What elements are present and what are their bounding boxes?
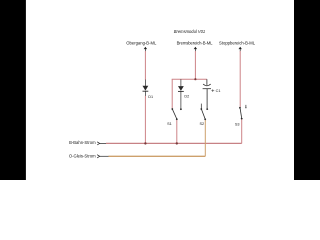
svg-text:D1: D1: [148, 95, 153, 99]
svg-text:S2: S2: [199, 122, 204, 126]
svg-text:S1: S1: [167, 122, 172, 126]
svg-text:S3: S3: [235, 122, 240, 126]
svg-text:Stoppbereich-B-ML: Stoppbereich-B-ML: [219, 40, 256, 45]
svg-text:Bremsbereich-B-ML: Bremsbereich-B-ML: [177, 40, 214, 45]
svg-text:D2: D2: [184, 94, 189, 98]
svg-text:Obergang-B-ML: Obergang-B-ML: [126, 40, 157, 45]
svg-text:Bremsmodul V01: Bremsmodul V01: [174, 29, 205, 34]
svg-text:O-Gleis-Strom: O-Gleis-Strom: [69, 153, 96, 158]
svg-text:C1: C1: [216, 89, 221, 93]
svg-text:B-Bahn-Strom: B-Bahn-Strom: [69, 140, 96, 145]
